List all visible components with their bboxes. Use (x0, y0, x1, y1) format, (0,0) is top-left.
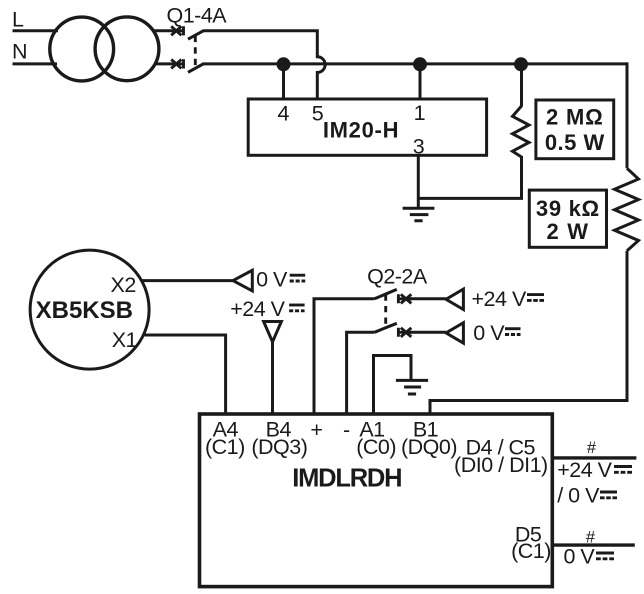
svg-text:0 V: 0 V (564, 545, 596, 569)
breaker Q1 pole 2 blade (188, 64, 204, 73)
wire pin - to Q2 pole 2 (347, 332, 375, 415)
svg-text:N: N (12, 40, 27, 64)
breaker Q1 pole 2 contact (171, 59, 184, 68)
breaker Q2 pole 2 blade (375, 323, 397, 332)
relay IM20-H box (248, 99, 486, 155)
flag 0V right triangle (446, 323, 463, 343)
svg-text:X1: X1 (112, 328, 137, 352)
wire pin 3 to ground (417, 155, 420, 207)
breaker Q2 pole 1 contact (398, 294, 412, 303)
svg-text:5: 5 (312, 101, 324, 125)
dc symbol (527, 295, 544, 301)
pushbutton XB5KSB circle (30, 250, 149, 369)
svg-text:2 MΩ: 2 MΩ (546, 104, 604, 129)
svg-text:(C1): (C1) (511, 539, 551, 563)
svg-text:+24 V: +24 V (472, 287, 527, 311)
dc symbol (290, 275, 306, 281)
svg-text:(C0): (C0) (356, 435, 396, 459)
dc symbol (289, 305, 305, 311)
svg-text:(DQ3): (DQ3) (251, 435, 307, 459)
wire N bus down to resistor R2 (626, 62, 629, 168)
resistor R1 zigzag (513, 106, 530, 157)
plc IMDLRDH box (200, 414, 553, 587)
breaker Q2 pole 1 blade (375, 289, 397, 298)
wire +24V flag to pin B4 (271, 342, 274, 415)
dc symbol (600, 492, 617, 498)
transformer T1 primary circle (50, 17, 114, 81)
svg-text:0 V: 0 V (473, 321, 505, 345)
wire junction to pin 1 (419, 64, 422, 99)
svg-text:3: 3 (413, 135, 425, 159)
dc symbol (614, 467, 632, 473)
svg-text:(DI0 / DI1): (DI0 / DI1) (454, 453, 548, 477)
resistor R2 value box (529, 190, 606, 247)
wire D5 stub (552, 543, 635, 546)
ground G2 (396, 380, 428, 394)
svg-text:/ 0 V: / 0 V (557, 484, 600, 508)
svg-text:+: + (310, 418, 322, 442)
wire L lead (13, 29, 59, 32)
wire DI stub (552, 456, 636, 459)
breaker Q1 pole 1 contact (171, 26, 184, 35)
wire T1 to Q1 pole 2 (155, 62, 171, 65)
breaker Q1 linkage (194, 36, 197, 70)
transformer T1 secondary circle (95, 17, 159, 81)
dc symbol (505, 329, 521, 335)
svg-text:2 W: 2 W (547, 219, 590, 244)
resistor R1 value box (536, 100, 614, 159)
svg-text:+24 V: +24 V (230, 297, 285, 321)
wire Q2 pole 2 to 0V flag (410, 331, 446, 334)
svg-text:IM20-H: IM20-H (323, 118, 399, 143)
flag 0V triangle (233, 270, 252, 291)
svg-text:4: 4 (277, 101, 289, 125)
svg-text:X2: X2 (110, 273, 135, 297)
svg-text:1: 1 (414, 101, 425, 125)
wire N lead (13, 62, 58, 65)
breaker Q1 pole 1 blade (188, 30, 204, 39)
svg-text:-: - (343, 418, 350, 442)
wire T1 to Q1 pole 1 (154, 29, 172, 32)
svg-text:0 V: 0 V (256, 267, 288, 291)
svg-text:Q2-2A: Q2-2A (367, 265, 428, 289)
flag +24V right triangle (446, 289, 463, 309)
wire R2 bottom to pin B1 (430, 251, 627, 415)
wire L net to pin 5 with hop (204, 31, 326, 99)
resistor R2 zigzag (615, 168, 639, 250)
wire junction to pin 4 (282, 64, 285, 99)
svg-text:IMDLRDH: IMDLRDH (292, 464, 401, 492)
flag +24V triangle down (264, 322, 282, 342)
breaker Q2 pole 2 contact (398, 328, 412, 337)
svg-text:+24 V: +24 V (557, 458, 612, 482)
dc symbol (596, 553, 614, 559)
svg-text:0.5 W: 0.5 W (545, 130, 605, 155)
breaker Q2 linkage (384, 295, 387, 328)
svg-text:XB5KSB: XB5KSB (36, 297, 133, 324)
wire X2 to 0V flag (142, 279, 234, 282)
junction on N bus (277, 57, 291, 71)
svg-text:(DQ0): (DQ0) (401, 435, 457, 459)
ground G1 (403, 208, 435, 221)
svg-text:L: L (12, 8, 24, 32)
wire junction to resistor R1 (520, 64, 523, 107)
wire Q2 pole 1 to +24V flag (410, 297, 446, 300)
svg-text:39 kΩ: 39 kΩ (536, 196, 600, 221)
svg-text:Q1-4A: Q1-4A (167, 4, 228, 28)
svg-text:#: # (587, 439, 597, 457)
svg-text:(C1): (C1) (205, 435, 245, 459)
wire pin A1 to ground (374, 356, 412, 416)
junction above resistor R1 (514, 57, 528, 71)
wire X1 to pin A4 (143, 335, 225, 415)
wire N bus (204, 62, 628, 65)
wire ground net to R1 bottom (418, 156, 521, 198)
junction above pin 1 (413, 57, 427, 71)
wire pin + to Q2 pole 1 (314, 299, 375, 415)
